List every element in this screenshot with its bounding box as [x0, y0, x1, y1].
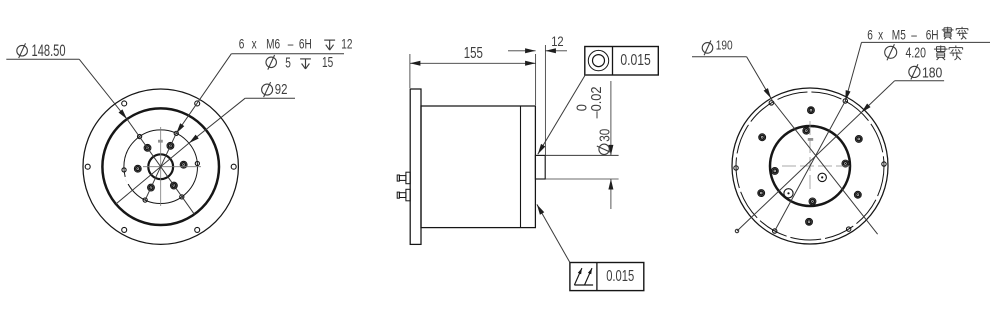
svg-text:0.015: 0.015 — [620, 52, 651, 70]
right view 4 inner screws — [771, 127, 848, 205]
left view 6 dowel holes on dia92 — [122, 131, 200, 202]
svg-text:6H: 6H — [926, 27, 939, 43]
right view 6 outer socket screws — [758, 107, 862, 225]
right view horizontal centerline — [782, 165, 851, 167]
underline M6 note — [231, 53, 344, 55]
total runout leader — [537, 204, 570, 262]
svg-text:180: 180 — [922, 64, 942, 80]
right view pin hole A — [818, 173, 826, 181]
dim 155 extension left — [409, 54, 411, 88]
left view bolt circle dia 92 — [124, 130, 198, 204]
label dia 92 — [262, 80, 288, 97]
right view pin hole B — [784, 189, 793, 198]
svg-text:x: x — [878, 27, 883, 43]
svg-text:M6: M6 — [266, 36, 280, 52]
right view vertical centerline — [809, 121, 811, 193]
right view dashed circle dia 180 — [736, 92, 884, 240]
left view center bore — [148, 154, 173, 179]
label 6 x M6 - 6H depth 12 — [239, 36, 353, 52]
left view horizontal centerline — [143, 166, 201, 168]
svg-text:148.50: 148.50 — [32, 41, 66, 60]
left view 6 socket head cap screws — [134, 142, 187, 191]
svg-text:M5: M5 — [892, 27, 906, 43]
leader line dia 180 — [735, 81, 894, 233]
concentricity leader — [538, 75, 586, 155]
side view body edge line — [520, 106, 522, 228]
leader line M6 tapped holes — [145, 54, 231, 200]
dim 12 line left — [508, 48, 536, 53]
svg-text:15: 15 — [322, 53, 333, 71]
svg-text:12: 12 — [341, 36, 352, 52]
underline M5 note — [862, 41, 990, 43]
left view thick circle dia 148.5 register — [102, 108, 219, 225]
underline dia 92 — [245, 97, 295, 99]
svg-text:190: 190 — [716, 39, 733, 53]
dim 155 extension right — [535, 54, 537, 105]
svg-text:6H: 6H — [299, 36, 312, 52]
terminal pin lower — [397, 189, 410, 201]
left view vertical centerline — [160, 127, 162, 206]
svg-text:6: 6 — [867, 27, 873, 43]
label dia 5 depth 15 — [266, 53, 333, 71]
svg-text:4.20: 4.20 — [906, 44, 926, 61]
dim dia30 rotated text — [573, 86, 613, 154]
dim 12 line right — [545, 48, 567, 53]
svg-text:92: 92 — [275, 80, 288, 97]
total runout tolerance frame — [570, 263, 644, 291]
leader line M5 note — [775, 42, 862, 231]
side view motor body — [421, 106, 535, 228]
svg-text:x: x — [252, 36, 257, 52]
leader line dia 148.50 — [79, 59, 194, 214]
left view 6 flange mounting holes — [85, 101, 236, 232]
svg-text:12: 12 — [551, 34, 563, 49]
underline dia 180 — [895, 80, 944, 82]
right view thick circle — [770, 126, 850, 206]
side view shaft extension bottom — [545, 178, 618, 180]
underline dia 190 — [692, 56, 747, 58]
svg-text:30: 30 — [596, 129, 613, 142]
label dia 4.20 through — [885, 44, 963, 61]
svg-text:–: – — [911, 27, 917, 43]
svg-text:6: 6 — [239, 36, 245, 52]
right view 6 through holes dia 4.2 — [734, 99, 886, 233]
concentricity tolerance frame — [585, 47, 659, 76]
right view outer circle dia 190 — [732, 88, 888, 244]
label dia 180 — [909, 64, 943, 80]
terminal pin upper — [397, 172, 410, 184]
dim 155 text — [464, 44, 483, 61]
svg-text:–0.02: –0.02 — [587, 86, 604, 118]
label 6 x M5 - 6H through — [867, 27, 968, 43]
svg-text:5: 5 — [285, 53, 291, 71]
dim 12 extension — [544, 45, 546, 155]
svg-text:155: 155 — [464, 44, 483, 61]
right view index mark — [808, 138, 813, 141]
dim 155 line — [410, 61, 536, 66]
dim 12 text — [551, 34, 563, 49]
left view outer circle flange OD — [83, 89, 238, 244]
leader line dia 92 — [116, 98, 245, 204]
left view index mark — [158, 140, 163, 143]
leader line dia 190 — [747, 57, 878, 235]
label dia 190 — [702, 39, 733, 56]
side view flange plate — [410, 89, 421, 244]
svg-text:–: – — [288, 36, 294, 52]
svg-text:0.015: 0.015 — [606, 266, 634, 285]
side view shaft extension top — [545, 154, 618, 156]
underline dia 148.50 — [6, 58, 79, 60]
dim dia30 line lower — [608, 179, 613, 209]
side view output hub — [535, 155, 545, 179]
dim dia30 line upper — [608, 81, 613, 155]
label dia 148.50 — [17, 41, 66, 60]
